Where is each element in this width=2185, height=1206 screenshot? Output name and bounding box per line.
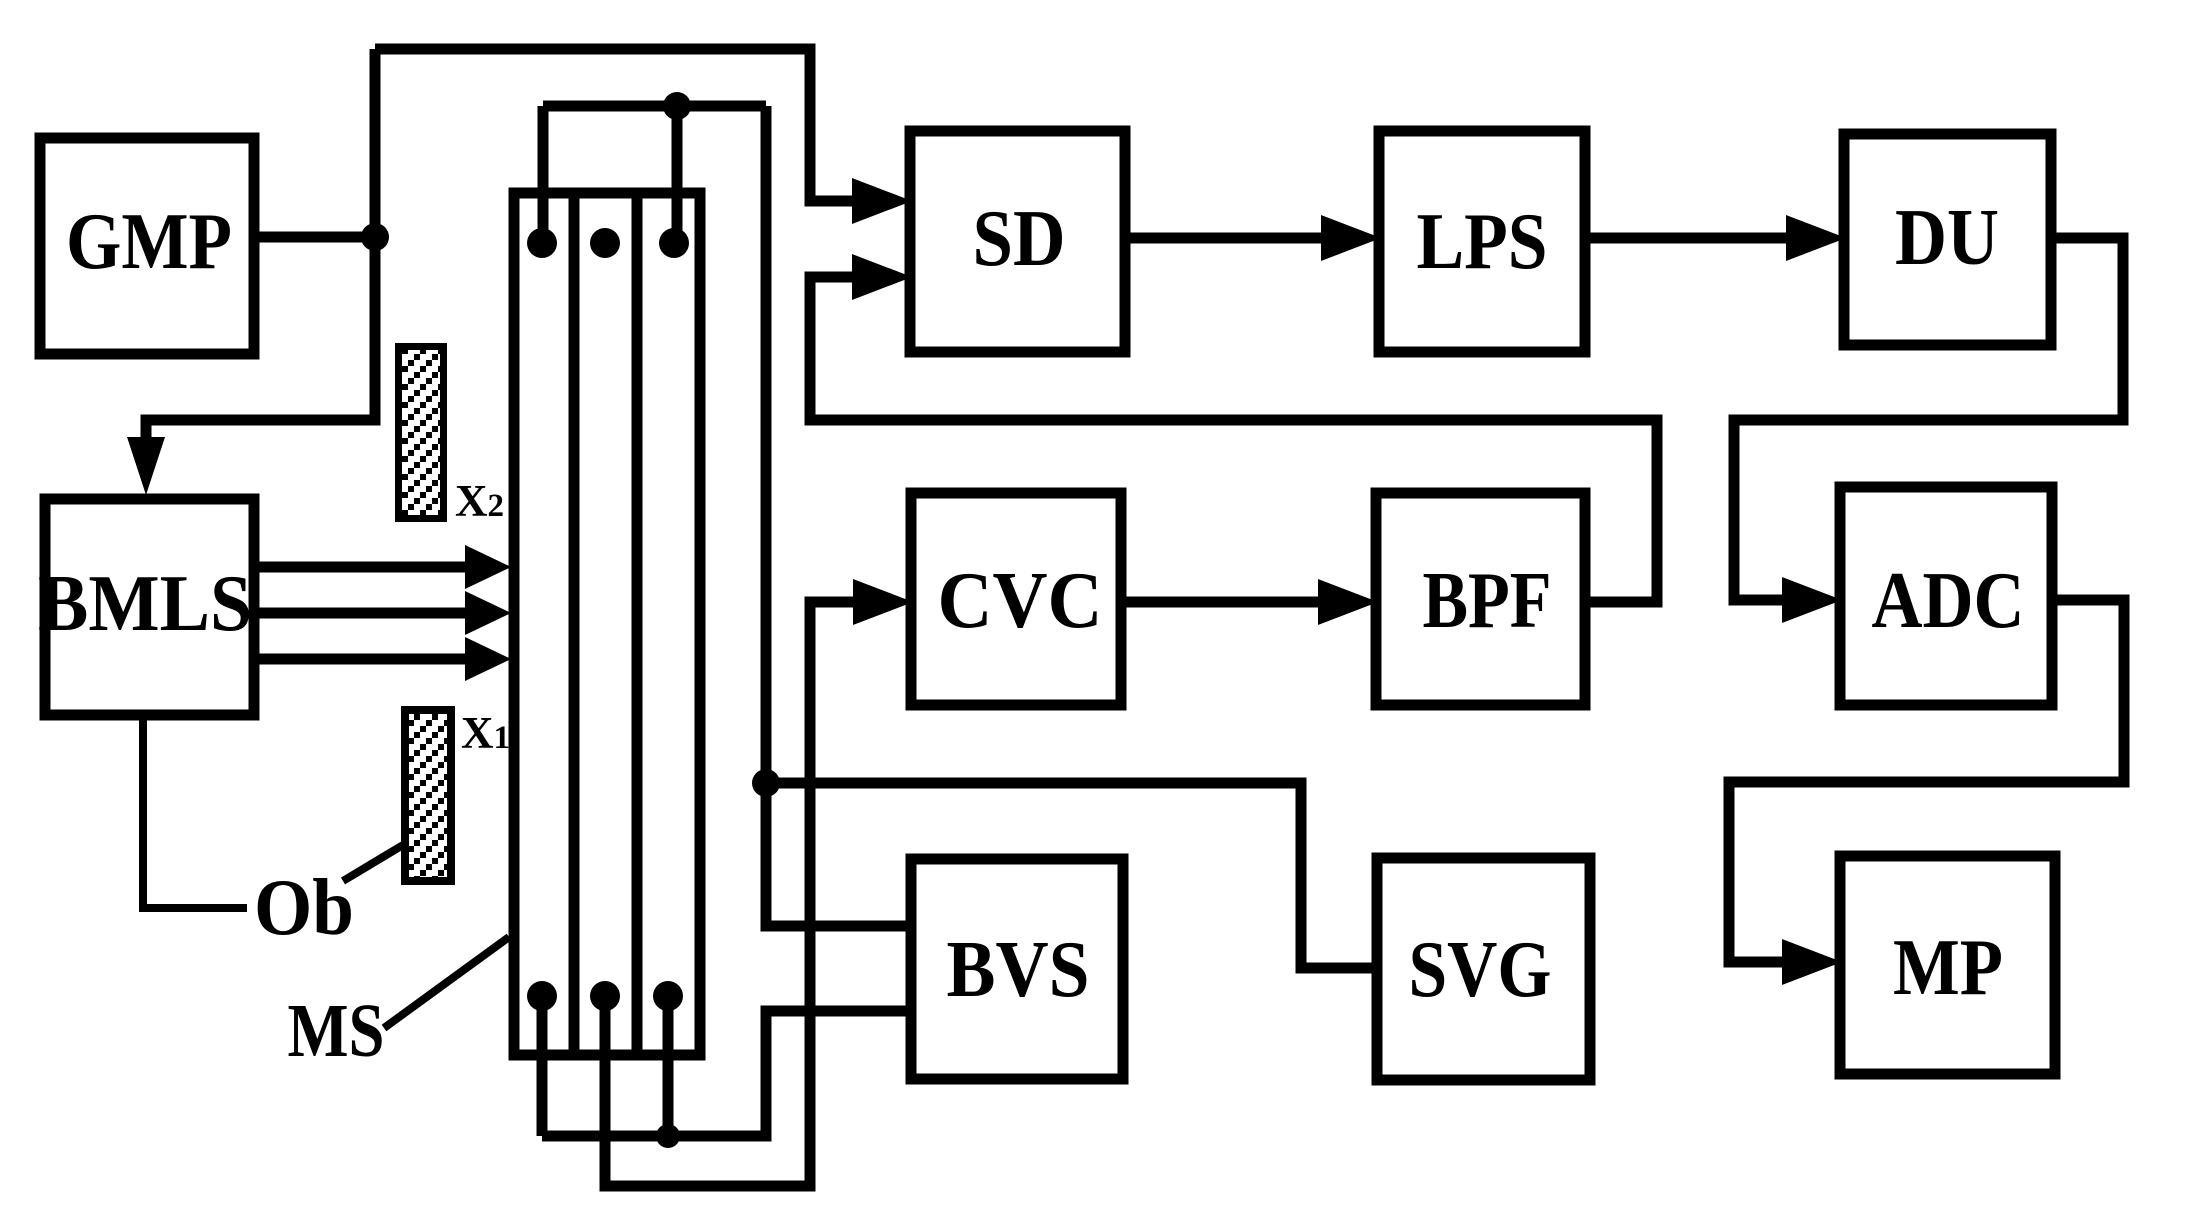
arrowhead BMLS arrow 1 [465, 545, 511, 589]
arrowhead into CVC [853, 579, 913, 625]
leader line MS to sensor [384, 937, 509, 1028]
wire node A up to top rail and down to BMLS branch [146, 49, 375, 440]
svg-text:BVS: BVS [947, 926, 1090, 1014]
wire drop to top electrode dot 3 [672, 106, 683, 243]
svg-text:SD: SD [973, 195, 1066, 283]
block SVG [1377, 858, 1590, 1080]
object x1 hatched electrode [405, 710, 451, 881]
wire drop from bottom electrode dot 3 [663, 996, 674, 1136]
wire SD to LPS [1125, 233, 1324, 244]
wire drop to top electrode dot 1 [538, 106, 549, 243]
junction node B dot [752, 769, 780, 797]
wire DU output to ADC input [1734, 238, 2123, 600]
wire drop from bottom electrode dot 1 [537, 996, 548, 1136]
bottom electrode dot 3 [653, 981, 683, 1011]
wire bottom electrode rail to BVS input 2 [542, 1011, 911, 1136]
svg-text:Ob: Ob [254, 864, 354, 952]
junction dot on top electrode rail [663, 92, 691, 120]
svg-text:DU: DU [1895, 194, 1999, 282]
wire bottom electrode dot 2 to CVC input [605, 602, 854, 1186]
block BPF [1376, 493, 1585, 705]
top electrode dot 2 [590, 228, 620, 258]
wire BMLS bottom to Ob label [143, 715, 247, 908]
arrowhead BMLS arrow 2 [465, 591, 511, 635]
sensor MS inner bar divider 2 [632, 193, 643, 1055]
svg-text:ADC: ADC [1872, 557, 2025, 645]
svg-text:BMLS: BMLS [38, 560, 252, 648]
arrowhead into ADC [1782, 577, 1842, 623]
wire BMLS arrow 2 to sensor [254, 608, 468, 619]
wire LPS to DU [1585, 233, 1789, 244]
svg-text:MP: MP [1893, 924, 2003, 1012]
svg-text:CVC: CVC [938, 557, 1103, 645]
svg-text:MS: MS [288, 989, 385, 1073]
block GMP [40, 138, 254, 354]
block ADC [1840, 487, 2052, 705]
top electrode dot 3 [659, 228, 689, 258]
wire top electrode rail [543, 101, 766, 112]
wire BPF output feedback to SD input 2 [810, 277, 1657, 602]
arrowhead into BMLS top [127, 437, 165, 495]
object x2 hatched electrode [399, 347, 444, 519]
wire CVC to BPF [1121, 597, 1321, 608]
junction node A dot [361, 223, 389, 251]
arrowhead into DU [1786, 215, 1846, 261]
wire GMP output to node A [254, 232, 375, 243]
sensor MS outer body [514, 193, 700, 1055]
svg-text:LPS: LPS [1417, 198, 1548, 286]
leader line Ob to object x1 [343, 845, 403, 881]
svg-text:GMP: GMP [66, 198, 232, 286]
svg-text:BPF: BPF [1423, 557, 1552, 645]
bottom electrode dot 2 [590, 981, 620, 1011]
block CVC [911, 493, 1121, 705]
wire BMLS arrow 3 to sensor [254, 654, 468, 665]
wire ADC output to MP input [1729, 600, 2124, 962]
sensor MS inner bar divider 1 [569, 193, 580, 1055]
top electrode dot 1 [527, 228, 557, 258]
wire BMLS arrow 1 to sensor [254, 562, 468, 573]
wire top rail to SD input 1 [375, 49, 854, 201]
arrowhead BMLS arrow 3 [465, 637, 511, 681]
block DU [1844, 134, 2051, 345]
block MP [1840, 856, 2055, 1074]
arrowhead into SD input 1 [852, 178, 912, 224]
wire vertical bus to BVS input 1 [766, 106, 911, 926]
svg-text:SVG: SVG [1409, 926, 1552, 1014]
bottom electrode dot 1 [527, 981, 557, 1011]
arrowhead into MP [1782, 939, 1842, 985]
block SD [910, 131, 1125, 352]
block BVS [911, 859, 1123, 1079]
junction dot on bottom electrode rail [656, 1124, 680, 1148]
wire node B to SVG input [766, 783, 1377, 968]
arrowhead into LPS [1321, 215, 1381, 261]
arrowhead into BPF [1318, 579, 1378, 625]
block LPS [1379, 131, 1585, 352]
arrowhead into SD input 2 [852, 254, 912, 300]
block BMLS [45, 499, 254, 715]
